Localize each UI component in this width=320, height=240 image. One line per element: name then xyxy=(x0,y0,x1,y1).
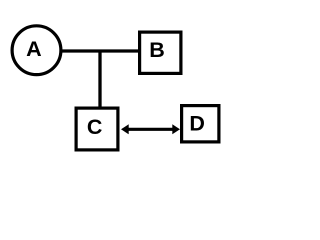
wire A to B xyxy=(36,49,140,52)
svg-text:C: C xyxy=(87,115,103,139)
node C (square) xyxy=(76,108,118,150)
node A (circle) xyxy=(12,26,61,75)
double-headed arrow C to D xyxy=(121,124,180,134)
svg-text:A: A xyxy=(26,37,42,61)
svg-text:D: D xyxy=(189,111,205,135)
wire T-junction down to C xyxy=(98,51,101,108)
node D (square) xyxy=(182,106,219,142)
svg-text:B: B xyxy=(149,38,165,62)
node B (square) xyxy=(140,32,181,73)
